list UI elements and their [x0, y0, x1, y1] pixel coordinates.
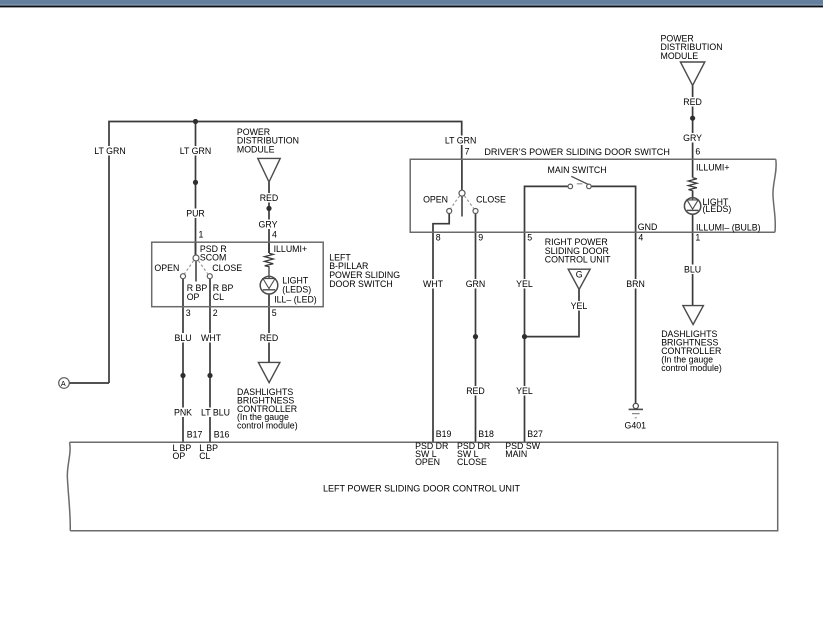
label GRY left — [257, 220, 279, 230]
svg-text:YEL: YEL — [516, 279, 533, 289]
junction dot YEL branch — [522, 334, 527, 339]
svg-text:DOOR SWITCH: DOOR SWITCH — [329, 279, 393, 289]
svg-text:1: 1 — [695, 233, 700, 243]
svg-text:RED: RED — [683, 97, 702, 107]
junction dot GRN/RED splice — [473, 334, 478, 339]
svg-text:OPEN: OPEN — [423, 194, 448, 204]
switch MAIN SWITCH blade — [568, 176, 591, 188]
junction dot LT GRN/PUR splice — [193, 180, 198, 185]
label PSD SW MAIN — [505, 441, 540, 459]
label BRN pin4 — [625, 279, 647, 289]
label RIGHT POWER SLIDING DOOR CONTROL UNIT — [545, 237, 611, 264]
wire pin 5 RED to dashlights triangle — [268, 294, 270, 362]
svg-text:LT GRN: LT GRN — [180, 146, 211, 156]
svg-text:(LEDS): (LEDS) — [282, 284, 311, 294]
switch driver's door OPEN/CLOSE — [447, 190, 478, 216]
svg-text:9: 9 — [478, 233, 483, 243]
svg-text:4: 4 — [638, 233, 643, 243]
svg-text:A: A — [61, 379, 66, 388]
svg-text:ILL– (LED): ILL– (LED) — [274, 295, 317, 305]
svg-text:MAIN: MAIN — [505, 449, 527, 459]
svg-text:OPEN: OPEN — [154, 263, 179, 273]
label POWER DISTRIBUTION MODULE left — [237, 127, 299, 155]
svg-text:MODULE: MODULE — [237, 145, 275, 155]
left B-pillar switch box — [152, 242, 324, 307]
svg-text:WHT: WHT — [201, 333, 222, 343]
svg-text:G401: G401 — [625, 421, 647, 431]
svg-text:B17: B17 — [187, 430, 203, 440]
label R BP OP — [187, 283, 208, 302]
svg-text:MODULE: MODULE — [661, 51, 699, 61]
triangle dashlights right — [683, 306, 704, 325]
wire LT GRN / PUR branch to pin 1 — [195, 122, 197, 256]
label PUR — [186, 209, 206, 219]
junction dot top trunk — [193, 119, 198, 124]
svg-text:2: 2 — [213, 308, 218, 318]
svg-text:MAIN SWITCH: MAIN SWITCH — [548, 165, 607, 175]
label LT GRN mid — [178, 146, 214, 156]
svg-text:ILLUMI– (BULB): ILLUMI– (BULB) — [696, 222, 761, 232]
wire pin 8 WHT to B19 — [433, 214, 449, 443]
label DASHLIGHTS BRIGHTNESS CONTROLLER right — [661, 329, 722, 373]
triangle PDM left — [258, 158, 280, 182]
svg-text:B16: B16 — [214, 430, 230, 440]
label WHT pin8 — [422, 279, 445, 289]
svg-text:YEL: YEL — [571, 301, 588, 311]
connector A circle — [59, 378, 70, 389]
wire pin1/pin4 top stubs left box — [196, 242, 270, 255]
wire pin 3 BLU/PNK to B17 — [182, 279, 184, 443]
svg-text:B18: B18 — [478, 429, 494, 439]
junction dot RED/GRY splice left — [266, 206, 271, 211]
label RED mid-left — [258, 333, 280, 343]
svg-text:CL: CL — [213, 292, 224, 302]
svg-text:CL: CL — [199, 451, 210, 461]
label YEL under G — [569, 301, 590, 311]
label L BP CL — [199, 443, 218, 461]
triangle PDM top right — [680, 62, 704, 86]
switch PSD R SCOM (left box) — [181, 255, 213, 282]
label LT BLU — [199, 408, 233, 418]
svg-text:G: G — [576, 270, 583, 280]
svg-text:YEL: YEL — [516, 386, 533, 396]
svg-text:5: 5 — [272, 308, 277, 318]
wire pin 5 YEL to B27 — [524, 232, 526, 442]
svg-text:CLOSE: CLOSE — [212, 263, 242, 273]
svg-text:OP: OP — [187, 292, 200, 302]
label YEL pin5 — [514, 279, 535, 289]
label RED right — [682, 97, 704, 107]
svg-text:B27: B27 — [527, 429, 543, 439]
header bar — [0, 0, 823, 7]
label LIGHT (LEDS) right — [703, 197, 732, 214]
wire main switch loop — [525, 186, 636, 232]
junction dot WHT/LT BLU splice — [207, 373, 212, 378]
label RED above B18 — [465, 386, 487, 396]
wire illumi bulb branch — [692, 160, 694, 306]
svg-text:RED: RED — [466, 386, 485, 396]
svg-text:DRIVER’S POWER SLIDING DOOR SW: DRIVER’S POWER SLIDING DOOR SWITCH — [484, 147, 669, 157]
label PSD R SCOM — [200, 244, 227, 263]
label PSD DR SW L CLOSE — [457, 441, 490, 467]
label YEL above B27 — [514, 386, 535, 396]
label BLU right — [682, 265, 703, 275]
svg-text:BLU: BLU — [684, 265, 701, 275]
svg-text:PNK: PNK — [174, 408, 192, 418]
resistor (driver box illumination) — [688, 178, 697, 191]
label BLU left — [173, 333, 194, 343]
svg-text:OP: OP — [173, 451, 186, 461]
lamp LIGHT (LEDS) right — [684, 198, 700, 214]
svg-text:WHT: WHT — [423, 279, 444, 289]
label PSD DR SW L OPEN — [415, 441, 448, 467]
svg-text:BRN: BRN — [626, 279, 645, 289]
label LT GRN right — [443, 136, 479, 146]
label GRY right — [682, 133, 704, 143]
svg-text:GND: GND — [638, 222, 658, 232]
svg-text:B19: B19 — [436, 429, 452, 439]
svg-text:CLOSE: CLOSE — [457, 457, 487, 467]
svg-text:control module): control module) — [661, 363, 722, 373]
svg-text:LT GRN: LT GRN — [445, 136, 476, 146]
svg-text:GRY: GRY — [259, 220, 278, 230]
label R BP CL — [213, 283, 234, 302]
svg-text:8: 8 — [436, 233, 441, 243]
svg-text:RED: RED — [260, 333, 279, 343]
wire PDM RED/GRY to pin 6 — [692, 86, 694, 160]
svg-text:3: 3 — [186, 308, 191, 318]
svg-text:RED: RED — [260, 193, 279, 203]
wire G branch YEL — [525, 290, 580, 337]
label DASHLIGHTS BRIGHTNESS CONTROLLER left — [237, 387, 298, 431]
junction dot BLU/PNK splice — [180, 373, 185, 378]
label RED left — [258, 193, 280, 203]
resistor (left box illumination) — [265, 253, 274, 276]
triangle G right power sliding door control unit — [568, 269, 590, 289]
wire pin 4 BRN to ground — [635, 232, 637, 403]
left power sliding door control unit box — [67, 442, 777, 531]
svg-text:7: 7 — [465, 147, 470, 157]
ground G401 — [629, 403, 643, 417]
driver's power sliding door switch box — [410, 159, 776, 232]
triangle dashlights left — [258, 362, 280, 382]
label LIGHT (LEDS) left — [282, 276, 311, 295]
label LEFT B-PILLAR POWER SLIDING DOOR SWITCH — [329, 252, 400, 288]
label LT GRN far left — [92, 146, 128, 156]
label GRN pin9 — [465, 279, 487, 289]
wire top LT GRN trunk — [109, 122, 462, 384]
svg-text:(LEDS): (LEDS) — [703, 204, 732, 214]
lamp LIGHT (LEDS) left — [260, 276, 278, 294]
svg-text:BLU: BLU — [174, 333, 191, 343]
svg-text:1: 1 — [199, 229, 204, 239]
label PNK — [172, 408, 194, 418]
svg-text:SCOM: SCOM — [200, 253, 226, 263]
wire pin 7 lead inside box — [461, 160, 463, 191]
junction dot RED/GRY splice right — [690, 116, 695, 121]
svg-text:LEFT POWER SLIDING DOOR CONTRO: LEFT POWER SLIDING DOOR CONTROL UNIT — [323, 484, 521, 494]
svg-text:LT GRN: LT GRN — [94, 146, 125, 156]
svg-text:control module): control module) — [237, 421, 298, 431]
svg-text:PUR: PUR — [186, 209, 205, 219]
svg-text:OPEN: OPEN — [415, 457, 440, 467]
svg-text:CLOSE: CLOSE — [476, 194, 506, 204]
svg-text:ILLUMI+: ILLUMI+ — [696, 163, 730, 173]
svg-text:4: 4 — [272, 229, 277, 239]
label WHT left — [200, 333, 223, 343]
svg-text:5: 5 — [527, 233, 532, 243]
wire pin 9 GRN/RED to B18 — [475, 214, 477, 443]
label POWER DISTRIBUTION MODULE top right — [661, 33, 723, 61]
wire RED/GRY drop to pin 4 left — [268, 182, 270, 253]
wire connector A lead — [69, 382, 109, 384]
svg-text:GRN: GRN — [466, 279, 486, 289]
svg-text:LT BLU: LT BLU — [201, 408, 230, 418]
svg-text:GRY: GRY — [683, 133, 702, 143]
svg-text:6: 6 — [695, 147, 700, 157]
label L BP OP — [173, 443, 192, 461]
svg-text:ILLUMI+: ILLUMI+ — [274, 244, 308, 254]
svg-text:CONTROL UNIT: CONTROL UNIT — [545, 255, 611, 265]
wire pin 2 WHT/LT BLU to B16 — [209, 279, 211, 443]
